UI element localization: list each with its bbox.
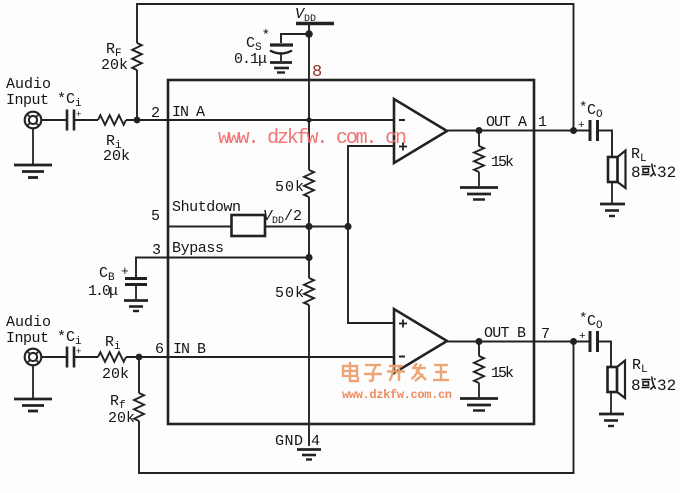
- junction dot VDD/CS: [305, 30, 313, 38]
- svg-text:OUT B: OUT B: [484, 325, 526, 342]
- pin 1 label OUT A: [486, 114, 547, 131]
- svg-text:Audio: Audio: [6, 76, 51, 93]
- svg-text:VDD: VDD: [295, 6, 316, 25]
- svg-text:8: 8: [312, 63, 322, 82]
- wire CO to speaker B: [598, 342, 611, 368]
- ground (CS): [270, 63, 292, 73]
- svg-text:VDD/2: VDD/2: [263, 208, 302, 227]
- capacitor CO (channel A output): [578, 100, 603, 141]
- ground (15k B): [460, 383, 498, 411]
- wire bias divider to GND pin 4: [308, 305, 310, 446]
- wire CO to speaker A: [598, 131, 612, 158]
- ground (input jack A): [14, 128, 52, 178]
- capacitor CS 0.1u (supply bypass): [234, 28, 293, 68]
- svg-text:OUT A: OUT A: [486, 114, 527, 131]
- svg-text:Audio: Audio: [6, 314, 51, 331]
- node B junction dot: [136, 354, 143, 361]
- wire jack A to Ci: [41, 119, 66, 121]
- svg-text:3: 3: [152, 242, 161, 259]
- junction dot OUT A / 15k: [476, 127, 483, 134]
- ground (speaker B): [599, 392, 624, 426]
- wire feedback loop A (top): [137, 4, 574, 131]
- audio input jack A: [6, 76, 51, 128]
- wire VDD rail down (pin 8 line): [308, 25, 310, 170]
- wire jack B to Ci: [41, 356, 66, 358]
- pin 7 label OUT B: [484, 325, 550, 343]
- svg-text:+: +: [121, 264, 129, 279]
- watermark logo characters: [343, 362, 449, 381]
- svg-text:50k: 50k: [275, 285, 304, 302]
- svg-text:+: +: [579, 331, 586, 343]
- svg-text:50k: 50k: [275, 179, 304, 196]
- svg-text:+: +: [76, 347, 81, 357]
- wire IN B: node to op-amp B inverting input: [126, 356, 394, 358]
- svg-text:Shutdown: Shutdown: [172, 199, 241, 216]
- op-amp A: [394, 99, 447, 163]
- wire bias line to op-amp + inputs: [348, 146, 394, 323]
- node A junction dot: [134, 117, 141, 124]
- speaker RL (channel B): [608, 357, 677, 398]
- svg-text:0.1μ: 0.1μ: [234, 51, 267, 68]
- ground (speaker A): [600, 182, 625, 216]
- capacitor Ci (channel B input): [57, 329, 82, 368]
- svg-text:20k: 20k: [108, 410, 135, 427]
- wire RF to node A: [136, 70, 138, 120]
- pin 3 Bypass wire: [136, 258, 309, 278]
- svg-text:www. dzkfw. com. cn: www. dzkfw. com. cn: [218, 127, 407, 150]
- wire feedback loop B (bottom): [139, 342, 574, 474]
- svg-text:4: 4: [311, 433, 320, 450]
- svg-text:+: +: [578, 120, 585, 132]
- wire bias divider middle: [308, 197, 310, 278]
- svg-text:CO: CO: [587, 102, 603, 121]
- svg-text:8: 8: [631, 377, 641, 395]
- svg-text:Bypass: Bypass: [172, 240, 224, 257]
- junction dot bypass/divider: [305, 254, 312, 261]
- svg-text:Ri: Ri: [105, 334, 121, 353]
- svg-text:15k: 15k: [491, 365, 514, 382]
- label glyph huo (or) A: [642, 164, 656, 177]
- svg-text:CB: CB: [99, 265, 115, 284]
- svg-text:Input: Input: [6, 330, 49, 347]
- wire IN A: node to op-amp A inverting input: [126, 119, 394, 121]
- wire VDD to CS: [281, 34, 309, 43]
- junction dot OUT A / feedback: [570, 127, 577, 134]
- svg-text:GND: GND: [275, 433, 303, 450]
- resistor Rf 20k (channel B feedback): [108, 357, 144, 427]
- junction dot VDD/2 on divider: [305, 223, 312, 230]
- svg-text:1: 1: [538, 114, 547, 131]
- junction dot OUT B / 15k: [476, 338, 483, 345]
- svg-text:RL: RL: [631, 146, 647, 165]
- svg-text:20k: 20k: [101, 57, 128, 74]
- wire Ci to Ri A: [75, 119, 98, 121]
- label glyph huo (or) B: [642, 377, 656, 390]
- junction dot pin8 line / IN A wire: [306, 117, 311, 122]
- wire VDD/2 output to bias line: [265, 226, 348, 228]
- ground (15k A): [460, 172, 498, 200]
- svg-text:20k: 20k: [102, 366, 129, 383]
- resistor RF 20k (channel A feedback): [101, 41, 142, 74]
- svg-text:RL: RL: [632, 357, 648, 376]
- svg-text:*Ci: *Ci: [57, 91, 82, 110]
- resistor 50k (lower bias divider): [275, 278, 314, 305]
- svg-text:2: 2: [151, 105, 160, 122]
- VDD/2 regulator block U1: [232, 208, 303, 236]
- audio input jack B: [6, 314, 51, 365]
- svg-text:1.0μ: 1.0μ: [88, 283, 118, 300]
- svg-text:CO: CO: [587, 313, 603, 332]
- resistor Ri 20k (channel A): [98, 115, 130, 165]
- svg-text:15k: 15k: [491, 154, 514, 171]
- op-amp B: [394, 309, 447, 373]
- capacitor CB 1.0u (bypass): [88, 264, 147, 300]
- svg-text:Input: Input: [6, 92, 49, 109]
- speaker RL (channel A): [608, 146, 676, 188]
- ground (CB): [124, 286, 148, 311]
- pin 6 label IN B: [155, 341, 206, 358]
- wire Ci to Ri B: [75, 356, 98, 358]
- ground (input jack B): [14, 365, 52, 411]
- resistor Ri 20k (channel B): [98, 334, 129, 383]
- IC package boundary box: [168, 80, 534, 424]
- resistor 15k (channel B load): [474, 342, 514, 384]
- junction dot VDD/2 on bias line: [344, 223, 351, 230]
- svg-text:www.dzkfw.com.cn: www.dzkfw.com.cn: [342, 388, 452, 402]
- svg-text:IN B: IN B: [173, 341, 206, 358]
- capacitor CO (channel B output): [579, 311, 603, 352]
- svg-text:6: 6: [155, 341, 164, 358]
- svg-text:+: +: [76, 110, 81, 120]
- svg-text:IN A: IN A: [172, 104, 205, 121]
- svg-text:20k: 20k: [103, 148, 130, 165]
- svg-text:32: 32: [657, 164, 676, 182]
- svg-text:8: 8: [631, 164, 641, 182]
- ground (GND pin 4): [297, 450, 321, 460]
- junction dot OUT B / feedback: [570, 338, 577, 345]
- capacitor Ci (channel A input): [57, 91, 82, 131]
- svg-text:32: 32: [657, 377, 676, 395]
- pin 2 label IN A: [151, 104, 205, 122]
- svg-text:*Ci: *Ci: [57, 329, 82, 348]
- svg-text:7: 7: [541, 326, 550, 343]
- wire OUT B: [447, 341, 589, 343]
- resistor 15k (channel A load): [474, 131, 514, 173]
- pin 4 label GND: [275, 433, 320, 450]
- wire OUT A: [447, 130, 589, 132]
- supply rail VDD: [295, 6, 334, 25]
- svg-text:5: 5: [151, 208, 160, 225]
- resistor 50k (upper bias divider): [275, 170, 314, 197]
- pin 5 Shutdown wire: [168, 226, 231, 228]
